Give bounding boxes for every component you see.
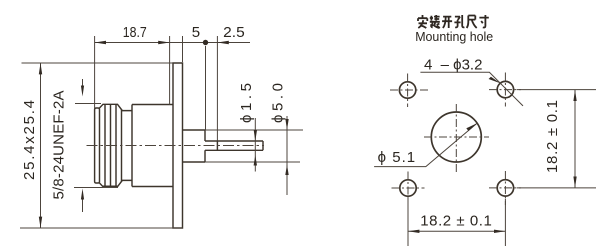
arrow leader 5.1 xyxy=(466,123,477,131)
connector body xyxy=(132,105,173,187)
crosshair hole bottom-right xyxy=(489,171,521,205)
flange top extension line xyxy=(22,62,174,64)
leader 4-phi3.2 xyxy=(420,72,523,106)
hole top-right xyxy=(497,81,513,97)
extension lines right dim xyxy=(517,90,596,188)
flange bottom extension line xyxy=(20,227,183,229)
extension line boss face for dim 5/2.5 xyxy=(205,46,207,130)
center circle xyxy=(431,112,481,162)
center pin xyxy=(205,141,263,150)
char Chi xyxy=(467,16,477,29)
svg-text:4 – ϕ3.2: 4 – ϕ3.2 xyxy=(424,57,482,74)
svg-text:5: 5 xyxy=(192,24,200,41)
arrow bottom dim left xyxy=(408,230,419,233)
connector cap left face xyxy=(95,108,100,183)
knurl vertical lines xyxy=(105,104,122,186)
crosshair hole top-left xyxy=(390,74,428,108)
char Kong xyxy=(454,15,464,27)
svg-text:ϕ1.5: ϕ1.5 xyxy=(238,83,255,123)
dim line phi 1.5 xyxy=(254,118,256,172)
boss bottom extension to phi5.0 xyxy=(205,161,300,163)
svg-text:ϕ5.0: ϕ5.0 xyxy=(270,83,287,123)
svg-text:Mounting hole: Mounting hole xyxy=(415,29,493,44)
hole bottom-right xyxy=(497,180,513,196)
svg-text:25.4x25.4: 25.4x25.4 xyxy=(21,100,38,180)
arrow phi1.5 top xyxy=(254,130,257,141)
boss top extension to phi5.0 xyxy=(205,129,303,131)
arrow right dim bottom xyxy=(573,177,576,188)
svg-text:2.5: 2.5 xyxy=(223,24,245,41)
thread leader line bottom xyxy=(74,188,103,213)
arrow right dim top xyxy=(573,90,576,101)
right view: title Chinese 安装开孔尺寸 (drawn strokes) xyxy=(418,15,489,28)
arrow phi1.5 bottom xyxy=(254,155,257,166)
extension line pin step for dim 2.5 xyxy=(216,36,218,141)
svg-text:18.2 ± 0.1: 18.2 ± 0.1 xyxy=(544,100,561,173)
arrow thread top xyxy=(81,86,84,97)
arrow leader 3.2 xyxy=(489,77,501,84)
leader phi5.1 xyxy=(374,123,477,166)
svg-text:18.7: 18.7 xyxy=(123,24,147,41)
arrow 2.5 xyxy=(217,41,228,44)
rear boss xyxy=(183,130,206,162)
arrow 25.4 bottom xyxy=(39,217,42,228)
thread leader line top xyxy=(75,79,101,104)
extension line left of 18.7 xyxy=(94,36,96,108)
arrow thread bottom xyxy=(81,189,84,200)
top dimension line xyxy=(95,42,250,44)
arrow 25.4 top xyxy=(39,63,42,74)
crosshair center circle xyxy=(424,104,489,172)
char Zhuang xyxy=(430,15,440,28)
arrow phi5.0 bottom xyxy=(285,165,288,176)
crosshair hole top-right xyxy=(489,73,521,107)
extension line flange right for dim 5 xyxy=(182,36,184,62)
flange xyxy=(173,63,183,228)
extension line right of 18.7 xyxy=(169,36,171,105)
hole bottom-left xyxy=(400,180,416,196)
dim line phi 5.0 xyxy=(286,116,288,195)
knurl outline xyxy=(100,104,133,186)
crosshair hole bottom-left xyxy=(392,172,425,206)
char Kai xyxy=(442,17,452,28)
arrow 18.7 right xyxy=(158,41,169,44)
svg-text:5/8-24UNEF-2A: 5/8-24UNEF-2A xyxy=(50,91,67,200)
dimension line 25.4 xyxy=(40,63,42,228)
svg-text:ϕ 5.1: ϕ 5.1 xyxy=(378,149,416,166)
char An xyxy=(418,15,427,28)
arrow bottom dim right xyxy=(494,230,505,233)
svg-text:18.2 ± 0.1: 18.2 ± 0.1 xyxy=(420,213,492,230)
hole top-left xyxy=(399,82,415,98)
arrow 18.7 left xyxy=(95,41,106,44)
dimension line right 18.2 xyxy=(574,90,576,188)
dot terminator dim 5 xyxy=(203,40,208,45)
char Cun xyxy=(479,15,488,28)
center line left view xyxy=(87,145,265,147)
arrow phi5.0 top xyxy=(285,119,288,130)
extension lines bottom dim xyxy=(408,199,505,246)
dimension line bottom 18.2 xyxy=(408,230,505,232)
mounting holes xyxy=(399,81,513,196)
